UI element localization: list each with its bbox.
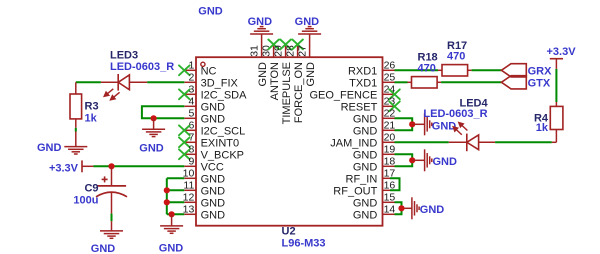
LED3 emission arrows [104, 89, 119, 100]
wire R17 to GRX port [472, 69, 502, 71]
svg-text:GND: GND [201, 101, 226, 113]
svg-text:GND: GND [353, 125, 378, 137]
svg-text:GND: GND [139, 142, 164, 154]
wire stub into R4 bottom [552, 141, 557, 143]
U2 pin 27 GND (top) [297, 45, 318, 86]
U2 pin 6 I2C_SCL (left) [184, 120, 245, 138]
svg-text:GND: GND [353, 161, 378, 173]
svg-text:LED3: LED3 [110, 50, 138, 62]
no-connect X on pin 24 [389, 89, 400, 99]
svg-text:JAM_IND: JAM_IND [330, 137, 377, 149]
svg-text:GND: GND [201, 197, 226, 209]
svg-text:GND: GND [248, 16, 273, 28]
no-connect X on pin 28 [292, 40, 303, 50]
svg-text:470: 470 [447, 51, 465, 63]
wire pin19/pin18 GND loop [395, 154, 413, 166]
svg-text:RF_OUT: RF_OUT [333, 185, 377, 197]
svg-text:GND: GND [201, 173, 226, 185]
U2 pin 20 JAM_IND (right) [330, 132, 395, 150]
U2 pin-1 indicator circle [201, 62, 205, 66]
svg-text:GND: GND [353, 197, 378, 209]
wire R18 to GTX port [441, 81, 501, 83]
ground symbol below pin4/5 wire [153, 118, 155, 129]
U2 pin 11 GND (left) [183, 180, 225, 198]
wire R4 to +3.3V [555, 69, 557, 102]
svg-text:RESET: RESET [341, 101, 378, 113]
power flag +3.3V (right) [550, 59, 563, 69]
svg-text:GND: GND [201, 209, 226, 221]
ground symbol above pin31 (inverted) [261, 34, 263, 46]
svg-text:1k: 1k [85, 113, 98, 125]
svg-text:9: 9 [188, 156, 194, 168]
svg-text:26: 26 [384, 60, 396, 72]
svg-text:GTX: GTX [528, 78, 551, 90]
svg-text:I2C_SCL: I2C_SCL [201, 125, 246, 137]
svg-text:GND: GND [420, 204, 445, 216]
ground symbol right of pin21/22 (rotated) [412, 123, 424, 125]
ground symbol right of pin15/14 (rotated) [405, 207, 412, 209]
svg-text:10: 10 [183, 168, 195, 180]
svg-text:GND: GND [159, 243, 184, 254]
U2 pin 26 RXD1 (right) [348, 60, 395, 78]
U2 pin 24 GEO_FENCE (right) [309, 84, 395, 102]
U2 pin 10 GND (left) [183, 168, 225, 186]
svg-text:GND: GND [91, 243, 116, 254]
power flag +3.3V (left) [82, 160, 93, 172]
svg-text:U2: U2 [282, 226, 296, 238]
svg-text:GND: GND [201, 113, 226, 125]
ground symbol right of pin19/18 (rotated) [412, 159, 424, 161]
U2 pin 31 GND (top) [249, 45, 270, 86]
no-connect X on pin 7 [179, 137, 190, 147]
svg-text:GND: GND [305, 62, 317, 87]
U2 pin 17 RF_IN (right) [346, 168, 396, 186]
svg-text:L96-M33: L96-M33 [282, 237, 326, 249]
svg-text:GND: GND [295, 16, 320, 28]
svg-text:LED-0603_R: LED-0603_R [423, 108, 487, 120]
U2 pin 8 V_BCKP (left) [184, 144, 244, 162]
svg-text:470: 470 [418, 63, 436, 75]
U2 pin 15 GND (right) [353, 192, 396, 210]
svg-text:EXINT0: EXINT0 [201, 137, 240, 149]
U2 pin 5 GND (left) [184, 108, 225, 126]
wire C9 to ground [111, 214, 113, 222]
svg-text:RXD1: RXD1 [348, 65, 377, 77]
LED4 emission arrows [453, 123, 467, 135]
U2 pin 12 GND (left) [183, 192, 225, 210]
svg-text:GND: GND [198, 5, 223, 17]
junction pin21/22 ground tap [409, 121, 415, 127]
svg-text:100u: 100u [73, 195, 98, 207]
svg-text:TXD1: TXD1 [349, 77, 377, 89]
svg-text:I2C_SDA: I2C_SDA [201, 89, 248, 101]
svg-text:GND: GND [353, 113, 378, 125]
svg-text:NC: NC [201, 65, 217, 77]
junction pin19/18 ground tap [409, 157, 415, 163]
svg-text:14: 14 [384, 204, 396, 216]
U2 pin 28 FORCE_ON (top) [285, 45, 306, 123]
U2 pin 1 NC (left) [184, 60, 216, 78]
wire pin25 TXD1 to R18 [395, 81, 408, 83]
svg-text:TIMEPULSE: TIMEPULSE [281, 62, 293, 124]
no-connect X on pin 30 [268, 40, 279, 50]
ground symbol above pin27 (inverted) [309, 34, 311, 46]
svg-text:+3.3V: +3.3V [49, 163, 79, 175]
no-connect X on pin 6 [179, 125, 190, 135]
wire pin26 RXD1 to R17 [395, 69, 439, 71]
U2 pin 19 GND (right) [353, 144, 396, 162]
svg-text:1k: 1k [536, 122, 549, 134]
wire pin22/pin21 GND loop [395, 118, 413, 130]
wire pin4 GND loop to pin5 [142, 106, 184, 118]
wire pins 10-13 GND bus [167, 178, 185, 214]
U2 pin 30 ANTON (top) [261, 45, 282, 100]
svg-text:2: 2 [188, 72, 194, 84]
svg-text:4: 4 [188, 96, 194, 108]
U2 pin 9 VCC (left) [184, 156, 224, 174]
svg-text:R3: R3 [85, 100, 99, 112]
wire R3 to ground [75, 128, 77, 132]
resistor R18 [408, 77, 442, 88]
U2 pin 25 TXD1 (right) [349, 72, 395, 90]
no-connect X on pin 3 [179, 89, 190, 99]
junction pin15/14 ground tap [398, 205, 404, 211]
U2 pin 3 I2C_SDA (left) [184, 84, 247, 102]
svg-text:GEO_FENCE: GEO_FENCE [309, 89, 377, 101]
svg-text:21: 21 [384, 120, 396, 132]
svg-text:GND: GND [201, 185, 226, 197]
svg-text:20: 20 [384, 132, 396, 144]
U2 pin 13 GND (left) [183, 204, 225, 222]
ground symbol below pin13 [171, 214, 173, 226]
resistor R4 [550, 102, 563, 142]
svg-text:GND: GND [353, 149, 378, 161]
ground symbol below C9 [111, 221, 113, 231]
svg-text:19: 19 [384, 144, 396, 156]
svg-text:3D_FIX: 3D_FIX [201, 77, 239, 89]
svg-text:13: 13 [183, 204, 195, 216]
svg-text:GND: GND [257, 62, 269, 87]
svg-text:ANTON: ANTON [269, 62, 281, 100]
U2 pin 23 RESET (right) [341, 96, 396, 114]
wire pin20 JAM_IND to LED4 [395, 141, 449, 143]
svg-text:22: 22 [384, 108, 396, 120]
U2 pin 7 EXINT0 (left) [184, 132, 239, 150]
svg-text:12: 12 [183, 192, 195, 204]
wire LED3 cathode to R3 [76, 81, 101, 83]
LED D3 (LED3) diode symbol [101, 74, 147, 91]
U2 pin 18 GND (right) [353, 156, 396, 174]
svg-text:LED-0603_R: LED-0603_R [110, 61, 174, 73]
no-connect X on pin 8 [179, 149, 190, 159]
capacitor C9 (polarized) [96, 166, 127, 213]
wire pin17 RF_IN to pin16 RF_OUT loop [390, 178, 400, 190]
svg-text:GND: GND [37, 142, 62, 154]
svg-text:C9: C9 [84, 183, 98, 195]
port connector GRX [501, 64, 526, 77]
resistor R3 [70, 82, 82, 128]
U2 pin 4 GND (left) [184, 96, 225, 114]
IC U2 body rectangle (L96-M33 GPS module) [196, 57, 383, 226]
U2 pin 29 TIMEPULSE (top) [273, 45, 294, 124]
junction pin12 [164, 199, 170, 205]
wire LED4 to R4 [495, 141, 552, 143]
junction at C9 tap [108, 163, 114, 169]
svg-text:5: 5 [188, 108, 194, 120]
svg-text:15: 15 [384, 192, 396, 204]
no-connect X on pin 1 [179, 65, 190, 75]
U2 pin 21 GND (right) [353, 120, 396, 138]
wire pin15/pin14 GND loop [395, 202, 402, 214]
no-connect X on pin 23 [389, 101, 400, 111]
U2 pin 14 GND (right) [353, 204, 396, 222]
svg-text:GRX: GRX [528, 66, 553, 78]
svg-text:11: 11 [183, 180, 194, 192]
svg-text:+3.3V: +3.3V [547, 46, 577, 58]
ground symbol below R3 [75, 132, 77, 147]
svg-text:RF_IN: RF_IN [346, 173, 378, 185]
svg-text:V_BCKP: V_BCKP [201, 149, 244, 161]
svg-text:18: 18 [384, 156, 396, 168]
svg-text:GND: GND [353, 209, 378, 221]
svg-text:VCC: VCC [201, 161, 224, 173]
svg-text:27: 27 [297, 45, 309, 57]
svg-text:25: 25 [384, 72, 396, 84]
wire pin2 3D_FIX to LED3 anode [147, 81, 184, 83]
U2 pin 16 RF_OUT (right) [333, 180, 395, 198]
svg-text:31: 31 [249, 45, 261, 57]
svg-text:FORCE_ON: FORCE_ON [293, 62, 305, 123]
LED D4 (LED4) diode symbol [449, 134, 495, 152]
wire +3.3V to pin9 VCC [93, 165, 184, 167]
svg-text:GND: GND [433, 156, 458, 168]
port connector GTX [501, 76, 526, 89]
junction pin13 / ground tap [169, 211, 175, 217]
resistor R17 [438, 65, 472, 76]
junction pin11 [164, 187, 170, 193]
junction on pin5 wire [151, 115, 157, 121]
no-connect X on pin 29 [280, 40, 291, 50]
U2 pin 22 GND (right) [353, 108, 396, 126]
U2 pin 2 3D_FIX (left) [184, 72, 238, 90]
